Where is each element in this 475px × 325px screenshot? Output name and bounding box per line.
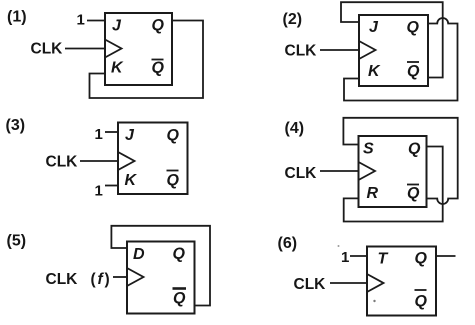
wire 1 to J input xyxy=(105,131,118,133)
svg-text:1: 1 xyxy=(341,249,349,266)
overline of Q-bar FF4 xyxy=(407,184,419,186)
flip-flop FF2 box xyxy=(359,15,428,86)
svg-text:CLK: CLK xyxy=(285,43,318,60)
clock triangle FF6 xyxy=(367,274,384,292)
wire CLK to clock input xyxy=(320,170,359,172)
wire CLK to clock input xyxy=(113,276,127,278)
wire Q output stub xyxy=(436,255,456,257)
svg-text:(4): (4) xyxy=(285,120,305,137)
svg-text:CLK: CLK xyxy=(294,276,327,293)
flip-flop FF4 box xyxy=(359,136,427,207)
overline of Q-bar FF3 xyxy=(167,170,179,172)
svg-text:(6): (6) xyxy=(278,235,298,252)
svg-text:(f): (f) xyxy=(91,271,112,288)
svg-text:T: T xyxy=(378,251,389,268)
wire 1 to K input xyxy=(105,185,118,187)
clock triangle FF3 xyxy=(118,152,135,170)
svg-text:CLK: CLK xyxy=(46,154,79,171)
clock triangle FF5 xyxy=(127,268,144,286)
svg-text:K: K xyxy=(125,172,138,189)
flip-flop FF3 box xyxy=(118,123,188,195)
svg-text:J: J xyxy=(112,18,122,35)
wire CLK to clock input xyxy=(65,48,105,50)
svg-text:Q: Q xyxy=(152,60,165,77)
svg-text:Q: Q xyxy=(408,141,421,158)
svg-text:Q: Q xyxy=(152,17,165,34)
wire 1 to T input xyxy=(350,255,367,257)
svg-text:K: K xyxy=(111,60,124,77)
svg-text:1: 1 xyxy=(95,183,103,200)
svg-text:Q: Q xyxy=(415,293,428,310)
wire Q-bar feedback to S (over the top, dip under vertical) xyxy=(343,118,457,204)
wire Q-bar feedback to J (over the top) xyxy=(341,2,443,77)
svg-text:J: J xyxy=(369,19,379,36)
wire CLK to clock input xyxy=(320,49,359,51)
svg-text:1: 1 xyxy=(95,126,103,143)
svg-text:S: S xyxy=(363,141,374,158)
svg-text:(1): (1) xyxy=(7,9,27,26)
wire CLK to clock input xyxy=(330,282,367,284)
svg-text:Q: Q xyxy=(407,63,420,80)
clock triangle FF1 xyxy=(105,40,122,58)
wire 1 to J input xyxy=(87,20,105,22)
svg-text:CLK: CLK xyxy=(46,271,79,288)
wire CLK to clock input xyxy=(80,160,118,162)
wire Q-bar feedback to D (over the top) xyxy=(111,226,210,306)
svg-text:Q: Q xyxy=(415,250,428,267)
svg-text:Q: Q xyxy=(173,246,186,263)
svg-text:1: 1 xyxy=(77,12,85,29)
svg-text:Q: Q xyxy=(167,127,180,144)
svg-text:K: K xyxy=(368,63,381,80)
svg-text:R: R xyxy=(367,185,379,202)
clock triangle FF2 xyxy=(359,41,376,59)
overline of Q-bar FF2 xyxy=(407,61,419,63)
clock triangle FF4 xyxy=(359,162,376,180)
flip-flop FF6 box xyxy=(367,247,436,316)
speck above constant 1 FF6 xyxy=(338,245,340,247)
svg-text:(2): (2) xyxy=(283,11,303,28)
overline of Q-bar FF6 xyxy=(415,289,427,291)
wire Q feedback to K xyxy=(90,21,204,99)
svg-text:J: J xyxy=(125,127,135,144)
speck near clock triangle FF6 xyxy=(373,300,375,302)
wire Q feedback to R (around bottom) xyxy=(344,147,443,222)
svg-text:CLK: CLK xyxy=(31,41,64,58)
overline of Q-bar FF1 xyxy=(152,59,164,61)
svg-text:Q: Q xyxy=(173,290,186,307)
svg-text:Q: Q xyxy=(167,172,180,189)
overline of Q-bar FF5 xyxy=(173,287,187,290)
svg-text:(5): (5) xyxy=(7,233,27,250)
flip-flop FF1 box xyxy=(105,13,172,85)
svg-text:Q: Q xyxy=(407,185,420,202)
svg-text:(3): (3) xyxy=(6,117,26,134)
svg-text:CLK: CLK xyxy=(285,165,318,182)
svg-text:Q: Q xyxy=(407,19,420,36)
wire Q feedback to K (around bottom, hop over vertical) xyxy=(344,18,458,101)
svg-text:D: D xyxy=(133,246,145,263)
flip-flop FF5 box xyxy=(127,242,195,314)
